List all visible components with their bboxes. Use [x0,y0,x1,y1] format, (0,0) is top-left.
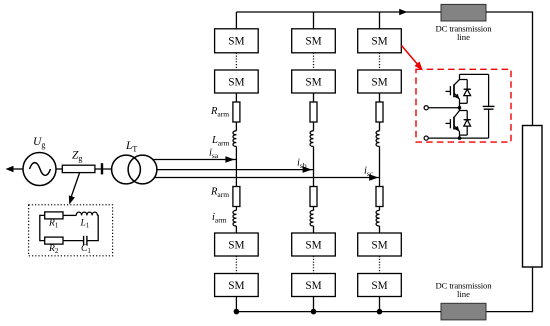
resistor Rarm upper leg c [376,102,383,122]
wire: leg b lower Rarm to coil [313,207,315,211]
wire: leg a dotted continuation lower [235,256,237,274]
wire: leg c dotted continuation lower [379,256,381,274]
label L1 [80,219,90,230]
svg-text:SM: SM [371,77,387,89]
SM module leg c lower 1 [358,233,402,256]
label Zg [72,150,82,164]
svg-text:Rarm: Rarm [210,187,229,199]
capacitor C1 [84,236,87,246]
resistor Rarm lower leg c [376,187,383,207]
SM module leg a lower 1 [215,233,259,256]
inductor Larm upper leg c [376,131,379,147]
svg-text:isc: isc [364,166,374,178]
resistor Rarm lower leg a [233,187,240,207]
node: SM detail bottom [458,136,462,140]
resistor R1 [45,212,63,219]
SM module leg b lower N [292,274,336,297]
wire: leg c Rarm to Larm [379,122,381,131]
wire: phase c line with current arrow isc [155,174,380,181]
resistor Rarm upper leg b [310,102,317,122]
inductor Larm lower leg b [310,210,313,226]
wire: leg c coil to lower SM [379,226,381,233]
svg-text:isa: isa [209,148,219,160]
wire: leg c lower Rarm to coil [379,207,381,211]
arrow: SM to detail (red) [402,46,423,71]
junction node leg a bottom [234,309,240,315]
svg-text:R2: R2 [48,244,59,255]
wire: leg b dotted continuation upper [313,53,315,70]
resistor R2 [45,237,63,244]
svg-text:SM: SM [228,36,244,48]
SM module leg c lower N [358,274,402,297]
svg-text:C1: C1 [81,244,91,255]
svg-text:isb: isb [297,158,307,170]
SM module leg b lower 1 [292,233,336,256]
DC load / line element (tall rectangle) [523,126,543,268]
diode antiparallel Q1 [460,80,471,104]
label C1 [81,244,91,255]
wire: top rail to right bus [486,12,533,126]
SM module leg a upper 1 [215,29,259,53]
svg-text:line: line [457,289,470,299]
label Rarm lower [210,187,229,199]
svg-text:Rarm: Rarm [210,106,229,118]
wire: top DC rail with current arrow [236,9,441,16]
label isb [297,158,307,170]
svg-text:line: line [457,32,470,42]
svg-text:SM: SM [371,280,387,292]
svg-text:iarm: iarm [212,212,227,224]
junction node leg c bottom [377,309,383,315]
wire: leg b coil to lower SM [313,226,315,233]
svg-text:Ug: Ug [33,136,45,150]
wire: leg a SM to upper Rarm [235,93,237,102]
SM module leg a upper N [215,70,259,93]
label iarm [212,212,227,224]
svg-text:Larm: Larm [211,135,230,147]
label LT [125,140,137,154]
arrow: Zg to detail box [69,173,80,205]
label Ug [33,136,45,150]
wire: SM detail bottom rail [460,137,489,139]
node: SM detail midpoint [458,106,462,110]
wire: bottom DC rail [236,311,441,313]
wire: leg b dotted continuation lower [313,256,315,274]
DC transmission line impedance top (gray box) [441,4,486,21]
transistor IGBT Q2 [446,108,460,138]
inductor Larm upper leg a [233,131,236,147]
svg-text:SM: SM [228,240,244,252]
label Rarm upper [210,106,229,118]
inductor L1 [76,212,97,215]
wire: detail loop left side [40,215,45,240]
svg-text:SM: SM [305,240,321,252]
transformer LT [112,155,157,184]
wire: source to Zg [56,168,63,170]
wire: leg a coil to lower SM [235,226,237,233]
capacitor SM detail [483,74,495,138]
label Larm upper [211,135,230,147]
wire: R2 to C1 [63,240,84,242]
wire: leg a AC node vertical [235,146,237,186]
inductor Larm lower leg c [376,210,379,226]
SM module leg b upper N [292,70,336,93]
wire: SM detail top rail [460,73,489,75]
wire: leg b AC node vertical [313,146,315,186]
wire: leg b SM to upper Rarm [313,93,315,102]
wire: leg b Rarm to Larm [313,122,315,131]
wire: leg a to bottom DC rail [235,297,237,312]
AC source Ug [23,153,56,186]
wire: phase a line with current arrow isa [153,156,236,163]
SM module leg a lower N [215,274,259,297]
wire: leg c dotted continuation upper [379,53,381,70]
svg-text:R1: R1 [48,219,59,230]
resistor Rarm upper leg a [233,102,240,122]
wire: leg b top rail drop [313,12,315,29]
diode antiparallel Q2 [460,111,471,136]
svg-text:SM: SM [228,77,244,89]
wire: leg b to bottom DC rail [313,297,315,312]
label DC transmission line top [436,24,493,42]
label R2 [48,244,59,255]
wire: R1 to L1 [63,214,76,216]
wire: leg c to bottom DC rail [379,297,381,312]
svg-text:Zg: Zg [72,150,82,164]
resistor Rarm lower leg b [310,187,317,207]
wire: left output stub from AC source [6,166,24,172]
wire: Zg to transformer with junction tick [95,163,112,174]
transistor IGBT Q1 [446,74,460,107]
svg-text:SM: SM [305,280,321,292]
wire: right bus lower [486,267,533,312]
svg-text:SM: SM [305,77,321,89]
wire: leg a top rail drop [235,12,237,29]
svg-text:L1: L1 [80,219,90,230]
label isc [364,166,374,178]
wire: leg a Rarm to Larm [235,122,237,131]
svg-text:SM: SM [371,36,387,48]
wire: leg a lower Rarm to coil [235,207,237,211]
SM module leg c upper 1 [358,29,402,53]
SM module leg c upper N [358,70,402,93]
label isa [209,148,219,160]
SM module leg b upper 1 [292,29,336,53]
terminal: SM detail mid [424,106,459,110]
inductor Larm upper leg b [310,131,313,147]
svg-text:SM: SM [305,36,321,48]
impedance Zg box [62,165,95,172]
svg-text:SM: SM [371,240,387,252]
inductor Larm lower leg a [233,210,236,226]
label R1 [48,219,59,230]
wire: leg c top rail drop [379,12,381,29]
DC transmission line impedance bottom (gray box) [441,303,486,320]
dashed detail box of Zg network [29,205,113,256]
wire: leg c SM to upper Rarm [379,93,381,102]
junction node leg b bottom [311,309,317,315]
svg-text:SM: SM [228,280,244,292]
wire: leg c AC node vertical [379,146,381,186]
wire: leg a dotted continuation upper [235,53,237,70]
label DC transmission line bottom [436,281,493,299]
SM detail dashed red box [416,69,511,142]
wire: phase b line with current arrow isb [157,166,314,173]
svg-text:LT: LT [125,140,137,154]
wire: detail loop right side [87,215,98,240]
terminal: SM detail bottom [424,136,459,140]
